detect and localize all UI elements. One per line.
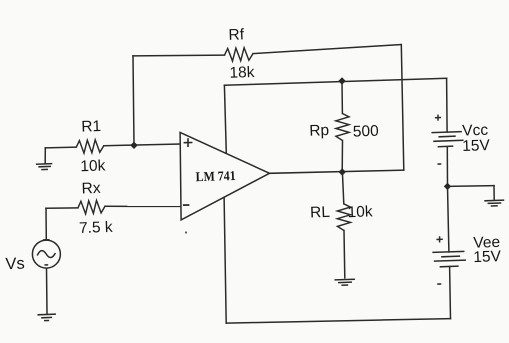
- svg-text:15V: 15V: [473, 248, 502, 266]
- svg-text:Rx: Rx: [81, 180, 101, 198]
- wire ground to R1: [45, 146, 76, 149]
- svg-text:Vs: Vs: [5, 255, 25, 274]
- ground (R1 left): [37, 148, 52, 170]
- svg-text:500: 500: [353, 123, 380, 141]
- wire V- pin down: [224, 197, 226, 323]
- resistor R1: [76, 140, 104, 153]
- pin + (Vcc): [435, 115, 441, 121]
- source Vs (AC): [32, 208, 60, 313]
- svg-text:10k: 10k: [347, 203, 373, 221]
- svg-text:18k: 18k: [229, 64, 255, 82]
- wire rail to Vcc: [446, 78, 449, 132]
- wire V+ supply rail top: [224, 78, 446, 85]
- wire RL top: [342, 172, 343, 204]
- wire Vs corner to Rx: [46, 207, 78, 209]
- svg-text:LM 741: LM 741: [195, 168, 236, 184]
- svg-text:10k: 10k: [80, 157, 106, 175]
- node junction J3 (output/RL/Rp): [339, 168, 346, 175]
- wire V+ pin to rail: [224, 85, 226, 153]
- op-amp U1 LM741: [180, 132, 269, 220]
- wire Rp top: [341, 81, 343, 114]
- resistor RL: [337, 204, 350, 231]
- wire Rf down to output net: [401, 45, 404, 171]
- wire to right ground: [448, 185, 495, 188]
- svg-text:RL: RL: [310, 204, 331, 222]
- ground (RL): [335, 279, 354, 285]
- resistor Rp: [336, 114, 349, 141]
- wire Rf right: [253, 45, 401, 54]
- pin + (Vee): [436, 236, 442, 242]
- svg-text:Rf: Rf: [228, 26, 245, 44]
- resistor Rx: [78, 200, 105, 214]
- wire output net: [270, 170, 404, 173]
- wire Rx to op-amp inverting input: [105, 205, 180, 207]
- svg-text:Rp: Rp: [309, 122, 329, 140]
- svg-text:15V: 15V: [462, 137, 491, 155]
- wire Vcc to ground node: [446, 147, 448, 187]
- svg-text:R1: R1: [81, 118, 101, 136]
- wire RL bottom: [343, 231, 346, 278]
- wire Rf left: [133, 54, 225, 57]
- ground (supply midpoint): [485, 186, 504, 206]
- pin - (Vee): [437, 283, 441, 285]
- battery Vee: [433, 251, 465, 266]
- svg-text:7.5 k: 7.5 k: [79, 219, 113, 237]
- ground (Vs): [38, 314, 55, 320]
- battery Vcc: [432, 132, 463, 147]
- wire V- supply rail bottom: [226, 319, 450, 324]
- pin + (noninverting): [184, 138, 193, 147]
- node junction J2 (Rp top): [338, 77, 345, 84]
- node junction J4 (supply midpoint): [444, 183, 451, 190]
- node junction J1: [130, 142, 137, 149]
- pin - (inverting): [183, 204, 190, 206]
- wire ground node to Vee: [448, 186, 449, 252]
- resistor Rf: [225, 48, 254, 61]
- stray scan dot: [185, 231, 187, 233]
- wire J1 up to Rf: [133, 56, 134, 145]
- wire Rp bottom: [341, 141, 343, 173]
- wire R1 to op-amp noninverting input: [104, 144, 180, 146]
- wire Vee to bottom rail: [449, 267, 452, 319]
- pin - (Vcc): [438, 163, 442, 165]
